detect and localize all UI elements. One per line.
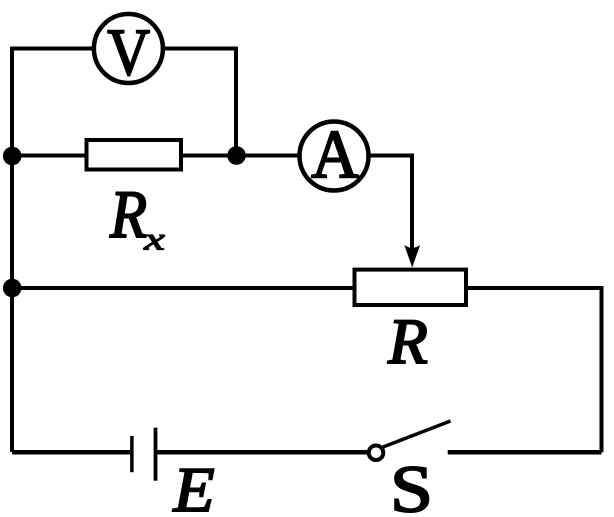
svg-text:R: R <box>387 306 428 378</box>
svg-text:A: A <box>311 116 359 193</box>
svg-text:R: R <box>109 177 147 252</box>
svg-text:V: V <box>107 15 150 89</box>
svg-text:E: E <box>172 455 214 517</box>
svg-text:S: S <box>390 452 433 517</box>
svg-text:x: x <box>143 220 165 256</box>
